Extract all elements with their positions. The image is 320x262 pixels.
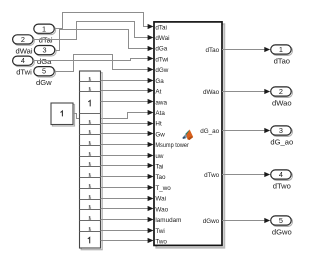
svg-text:Msump tower: Msump tower <box>155 142 189 149</box>
wire stack to uw <box>101 153 154 158</box>
wire dWao to outport 2 <box>222 89 270 94</box>
wire stack to Two <box>101 238 154 243</box>
wire stack to Tai <box>101 163 154 168</box>
wire stack to Wai <box>101 196 154 201</box>
wire dGwo to outport 5 <box>222 218 270 223</box>
outport 1 (dTao) <box>271 45 293 56</box>
wire inport5 to dGw <box>54 55 153 73</box>
wire stack to T_wo <box>101 185 154 190</box>
svg-text:dWao: dWao <box>272 98 292 107</box>
svg-text:dGw: dGw <box>36 78 52 87</box>
svg-text:dWao: dWao <box>203 89 220 96</box>
svg-text:Ata: Ata <box>155 110 165 117</box>
wire stack to Msump tower <box>101 142 154 147</box>
svg-text:Tao: Tao <box>155 174 166 181</box>
svg-text:Twi: Twi <box>155 228 164 235</box>
constant stack block <box>80 71 103 250</box>
svg-text:dTwo: dTwo <box>273 181 291 190</box>
svg-text:5: 5 <box>42 67 46 76</box>
svg-text:2: 2 <box>279 87 283 96</box>
svg-text:dGa: dGa <box>155 46 167 53</box>
outport 5 (dGwo) <box>271 216 293 227</box>
inport 2 (dWai) <box>13 35 35 46</box>
svg-text:dTai: dTai <box>39 36 53 45</box>
wire inport3 to dGa <box>55 30 154 52</box>
wire dTwo to outport 4 <box>222 172 270 177</box>
wire constant to Ata <box>73 110 154 119</box>
inport 1 (dTai) <box>34 24 56 34</box>
svg-text:dGw: dGw <box>155 67 168 74</box>
svg-text:dTao: dTao <box>206 47 220 54</box>
svg-text:4: 4 <box>279 170 283 179</box>
svg-text:dTwi: dTwi <box>16 68 32 77</box>
wire stack to At <box>101 88 154 93</box>
wire stack to Gw <box>101 131 154 136</box>
svg-text:lamudam: lamudam <box>155 217 181 224</box>
svg-text:Tai: Tai <box>155 164 163 171</box>
svg-text:dG_ao: dG_ao <box>200 128 219 135</box>
wire stack to lamudam <box>101 217 154 222</box>
wire inport4 to dTwi <box>33 56 153 61</box>
svg-text:2: 2 <box>21 35 25 44</box>
svg-text:4: 4 <box>21 56 25 65</box>
outport 3 (dG_ao) <box>271 126 293 136</box>
svg-text:uw: uw <box>155 153 164 160</box>
svg-text:T_wo: T_wo <box>155 185 171 192</box>
constant block 1 <box>51 103 75 126</box>
svg-text:dGa: dGa <box>37 57 52 66</box>
wire stack to Twi <box>101 228 154 233</box>
svg-text:Wao: Wao <box>155 206 168 213</box>
svg-text:5: 5 <box>279 216 283 225</box>
MATLAB function block Msump tower <box>154 22 224 248</box>
svg-text:3: 3 <box>279 126 283 135</box>
wire stack to Tao <box>101 174 154 179</box>
svg-text:dTwo: dTwo <box>204 172 220 179</box>
outport 2 (dWao) <box>271 87 293 97</box>
svg-text:Wai: Wai <box>155 196 166 203</box>
svg-text:Ht: Ht <box>155 121 162 128</box>
wire dG_ao to outport 3 <box>222 128 270 133</box>
svg-text:dTao: dTao <box>274 56 290 65</box>
svg-text:dGwo: dGwo <box>272 227 292 236</box>
svg-text:dTai: dTai <box>155 24 167 31</box>
svg-text:dGwo: dGwo <box>203 218 220 225</box>
svg-text:Gw: Gw <box>155 131 165 138</box>
svg-text:1: 1 <box>279 45 283 54</box>
wire dTao to outport 1 <box>222 47 270 52</box>
inport 3 (dGa) <box>34 46 56 57</box>
wire inport1 to dTai <box>54 13 153 30</box>
svg-text:dWai: dWai <box>15 46 32 55</box>
wire inport2 to dWai <box>33 22 153 41</box>
outport 4 (dTwo) <box>271 170 293 181</box>
svg-text:Ga: Ga <box>155 78 164 85</box>
svg-text:dWai: dWai <box>155 35 169 42</box>
svg-text:awa: awa <box>155 99 167 106</box>
svg-text:3: 3 <box>42 46 46 55</box>
svg-text:dTwi: dTwi <box>155 56 168 63</box>
svg-text:dG_ao: dG_ao <box>270 137 293 146</box>
MATLAB logo <box>182 129 193 140</box>
svg-text:1: 1 <box>42 24 46 33</box>
svg-text:Two: Two <box>155 239 167 246</box>
wire stack to Ga <box>101 78 154 83</box>
wire stack to awa <box>101 99 154 104</box>
inport 4 (dTwi) <box>13 56 35 67</box>
inport 5 (dGw) <box>34 67 56 78</box>
svg-text:At: At <box>155 89 161 96</box>
wire stack to Ht <box>101 121 154 126</box>
wire stack to Wao <box>101 206 154 211</box>
